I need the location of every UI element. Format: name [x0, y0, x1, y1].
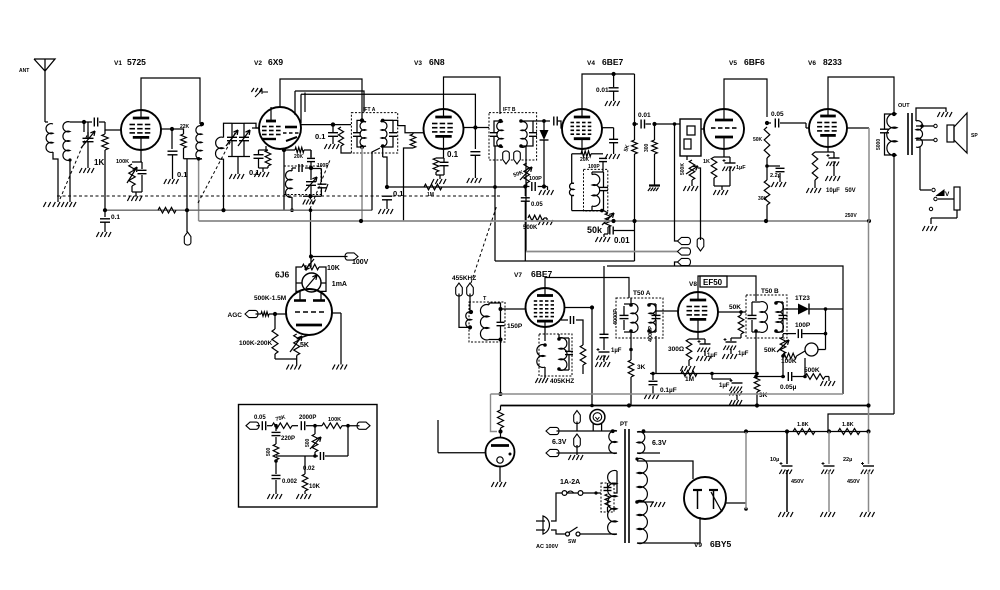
svg-text:100K: 100K: [116, 159, 129, 165]
svg-text:2.2µ: 2.2µ: [770, 173, 781, 179]
svg-text:T50 B: T50 B: [761, 288, 779, 295]
svg-text:4000P: 4000P: [648, 326, 654, 342]
svg-text:1K: 1K: [703, 159, 710, 165]
svg-text:450V: 450V: [847, 479, 860, 485]
svg-text:6N8: 6N8: [429, 57, 445, 67]
svg-text:4000P: 4000P: [613, 309, 619, 325]
svg-text:0.1: 0.1: [315, 132, 325, 141]
svg-text:500K: 500K: [680, 163, 686, 175]
svg-text:6J6: 6J6: [275, 270, 289, 280]
svg-text:3K: 3K: [759, 392, 768, 399]
svg-text:1.8K: 1.8K: [842, 422, 854, 428]
svg-text:1µF: 1µF: [707, 353, 718, 359]
svg-text:0.1µF: 0.1µF: [660, 387, 677, 394]
svg-text:V7: V7: [514, 272, 522, 279]
svg-text:100K: 100K: [781, 358, 797, 365]
svg-text:1µF: 1µF: [736, 165, 746, 171]
svg-text:220P: 220P: [281, 436, 295, 442]
svg-text:30K: 30K: [758, 196, 768, 202]
svg-text:V3: V3: [414, 60, 422, 67]
svg-text:500K: 500K: [804, 367, 820, 374]
svg-text:50K: 50K: [729, 304, 741, 311]
svg-text:0.1: 0.1: [393, 189, 403, 198]
svg-text:0.1: 0.1: [447, 150, 459, 159]
svg-text:V5: V5: [729, 60, 737, 67]
svg-text:AGC: AGC: [228, 312, 243, 319]
svg-text:100K-200K: 100K-200K: [239, 340, 273, 347]
svg-text:150P: 150P: [507, 323, 523, 330]
svg-text:EF50: EF50: [703, 278, 723, 287]
svg-text:300: 300: [644, 143, 650, 152]
svg-text:1M: 1M: [427, 192, 434, 198]
svg-text:20K: 20K: [294, 154, 304, 160]
svg-text:PT: PT: [620, 422, 628, 428]
svg-text:SW: SW: [568, 539, 576, 545]
svg-text:0.05: 0.05: [771, 111, 784, 118]
svg-text:SP: SP: [971, 133, 978, 139]
svg-text:6BE7: 6BE7: [602, 57, 624, 67]
svg-text:500: 500: [266, 447, 272, 456]
svg-text:6.3V: 6.3V: [652, 440, 667, 447]
svg-text:1K: 1K: [94, 158, 104, 167]
svg-text:50k: 50k: [587, 225, 603, 235]
svg-text:10µ: 10µ: [770, 457, 779, 463]
svg-text:0.1: 0.1: [111, 214, 120, 221]
svg-text:10K: 10K: [309, 484, 321, 490]
svg-text:50K: 50K: [764, 347, 776, 354]
svg-text:8233: 8233: [823, 57, 842, 67]
svg-text:1µF: 1µF: [738, 351, 749, 357]
svg-text:6X9: 6X9: [268, 57, 283, 67]
svg-text:V1: V1: [114, 60, 122, 67]
svg-text:T50 A: T50 A: [633, 290, 651, 297]
svg-text:1T23: 1T23: [795, 295, 810, 302]
svg-text:6.3V: 6.3V: [552, 439, 567, 446]
svg-text:0.05: 0.05: [531, 202, 543, 208]
svg-text:TV: TV: [941, 191, 950, 198]
svg-text:500K-1.5M: 500K-1.5M: [254, 295, 286, 302]
svg-text:V9: V9: [694, 542, 702, 549]
svg-text:300Ω: 300Ω: [668, 346, 684, 353]
svg-text:AC 100V: AC 100V: [536, 544, 559, 550]
svg-text:50K: 50K: [753, 137, 763, 143]
svg-text:0.01: 0.01: [596, 87, 609, 94]
svg-text:500K: 500K: [523, 225, 538, 231]
svg-text:V2: V2: [254, 60, 262, 67]
svg-text:100V: 100V: [352, 259, 369, 266]
svg-text:IFT B: IFT B: [503, 107, 516, 113]
svg-text:5725: 5725: [127, 57, 146, 67]
svg-text:0.01: 0.01: [614, 236, 630, 245]
svg-text:0.01: 0.01: [638, 112, 651, 119]
svg-text:20K: 20K: [580, 157, 590, 163]
svg-text:100P: 100P: [588, 164, 600, 170]
svg-text:V4: V4: [587, 60, 595, 67]
svg-text:10K: 10K: [327, 265, 340, 272]
svg-text:500: 500: [305, 438, 311, 447]
svg-text:1A-2A: 1A-2A: [560, 479, 580, 486]
svg-text:V8: V8: [689, 281, 697, 288]
svg-text:0.05µ: 0.05µ: [780, 384, 797, 391]
svg-text:1M: 1M: [685, 376, 694, 383]
svg-text:V6: V6: [808, 60, 816, 67]
svg-text:ANT: ANT: [19, 68, 29, 74]
svg-text:455KHZ: 455KHZ: [452, 275, 476, 282]
svg-text:2000P: 2000P: [299, 415, 316, 421]
svg-text:OUT: OUT: [898, 103, 910, 109]
svg-text:0.1: 0.1: [249, 168, 259, 177]
svg-text:1µF: 1µF: [719, 383, 730, 389]
svg-text:6BY5: 6BY5: [710, 539, 732, 549]
svg-text:22µ: 22µ: [843, 457, 852, 463]
svg-text:250V: 250V: [845, 213, 857, 219]
svg-text:100K: 100K: [328, 417, 341, 423]
svg-text:100P: 100P: [529, 176, 542, 182]
svg-text:50V: 50V: [845, 188, 856, 194]
svg-text:100P: 100P: [795, 322, 811, 329]
svg-text:405KHZ: 405KHZ: [550, 378, 574, 385]
svg-text:1µF: 1µF: [611, 348, 622, 354]
svg-text:0.05: 0.05: [254, 415, 266, 421]
svg-text:5000: 5000: [876, 139, 882, 150]
svg-text:1.8K: 1.8K: [797, 422, 809, 428]
svg-text:IFT A: IFT A: [363, 107, 376, 113]
svg-text:1mA: 1mA: [332, 281, 347, 288]
svg-text:0.1: 0.1: [177, 170, 187, 179]
svg-text:3K: 3K: [637, 364, 646, 371]
svg-text:6BF6: 6BF6: [744, 57, 765, 67]
svg-text:10µF: 10µF: [826, 188, 840, 194]
svg-text:0.002: 0.002: [282, 479, 298, 485]
svg-text:5K: 5K: [300, 342, 309, 349]
svg-text:450V: 450V: [791, 479, 804, 485]
